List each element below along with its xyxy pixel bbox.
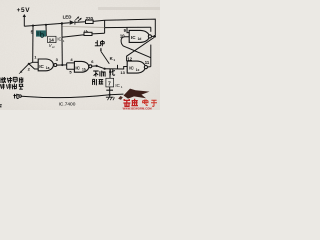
wire pin2 stub diagonal <box>29 64 38 69</box>
wire IC1b input tie <box>67 63 75 69</box>
wire wrap to pin10 and cross couple D2 <box>121 37 151 58</box>
switch K1 contact A <box>100 48 102 51</box>
watermark beetle logo <box>124 89 150 99</box>
svg-text:1b: 1b <box>82 68 86 72</box>
ground lead wire <box>21 94 123 97</box>
ground drop wire <box>109 69 111 78</box>
svg-text:11: 11 <box>145 60 150 65</box>
svg-text:1a: 1a <box>46 66 50 70</box>
wire cross couple D1 (IC1d out to IC1c in12) <box>127 38 154 62</box>
node dot pullup join <box>61 64 63 66</box>
wire pin1 stub <box>33 61 39 63</box>
watermark red text dianzi <box>143 99 157 106</box>
svg-text:LED: LED <box>63 15 72 20</box>
wire IC1a out to IC1b in <box>57 64 67 66</box>
op-amp gate IC1a body <box>38 59 53 71</box>
wire 1k branch horizontal <box>62 35 84 38</box>
node junction dot probe pullup <box>32 25 34 27</box>
ground lead terminal circle <box>19 95 21 97</box>
gate IC1a output bubble <box>54 64 57 67</box>
watermark wing fragment <box>118 96 123 100</box>
node dot switch pole <box>104 68 106 70</box>
svg-text:WWW.BEWORM.COM: WWW.BEWORM.COM <box>123 106 153 110</box>
svg-text:13: 13 <box>120 70 125 75</box>
resistor R 1k body <box>84 32 92 35</box>
node probe junction <box>29 62 33 64</box>
wire pin9 net right drop <box>150 27 152 32</box>
wire pin 9 stub <box>127 28 129 33</box>
wire 1k branch vertical <box>61 24 63 38</box>
wire pole to IC1c pin13 <box>105 67 128 70</box>
wire +5V bus <box>24 23 69 27</box>
svg-text:cc: cc <box>52 45 56 49</box>
LED D1 diode symbol <box>70 20 75 25</box>
svg-text:IC: IC <box>131 35 136 40</box>
svg-text:IC: IC <box>57 37 61 42</box>
pin 7 box <box>106 78 114 87</box>
wire IC1b out <box>92 65 97 67</box>
svg-text:7: 7 <box>108 81 111 87</box>
wire +5V vertical <box>23 16 25 27</box>
wire pin9 net horizontal <box>105 26 151 28</box>
wire IC1d output <box>152 35 156 37</box>
node junction dot Vcc drop <box>45 24 47 26</box>
wire Vcc pin14 drop <box>45 25 47 37</box>
probe tip arrowhead <box>20 71 23 73</box>
switch K1 lever <box>101 51 109 63</box>
ground terminal label (di) bottom left <box>13 94 18 99</box>
ground bar upper <box>106 89 113 91</box>
gate IC1b output bubble <box>89 65 92 68</box>
wire LED to R220 <box>75 21 85 24</box>
svg-text:IC: IC <box>115 83 119 88</box>
svg-text:1d: 1d <box>138 37 142 41</box>
wire R220 to node X <box>93 20 105 21</box>
node dot IC1b out <box>96 65 98 67</box>
gate IC1b body <box>74 61 88 72</box>
stray mark bottom left <box>0 104 2 108</box>
faint bleed-through smudge top right <box>98 7 160 10</box>
probe lead wire <box>22 64 29 71</box>
wire IC1c output <box>148 66 151 68</box>
wire 1k to node X <box>92 32 105 35</box>
watermark red char 2 <box>131 99 138 106</box>
wire IC1a output pullup vertical <box>61 37 63 65</box>
resistor R 220 body <box>86 20 94 23</box>
node dot ground junction <box>109 94 111 96</box>
test probe label (ce shi tan tou) <box>0 83 23 89</box>
svg-text:IC: IC <box>129 66 134 71</box>
gate IC1c body <box>127 61 145 73</box>
svg-text:IC: IC <box>39 64 44 69</box>
ground symbol hatched <box>109 95 111 97</box>
teal annotation patch <box>36 30 46 36</box>
gate IC1d output bubble <box>148 35 151 38</box>
svg-text:1c: 1c <box>136 68 140 72</box>
switch contact B tick <box>117 65 119 69</box>
rising edge label (shang sheng) <box>95 40 105 46</box>
wire to switch pole <box>97 66 105 69</box>
watermark red char 1 <box>123 99 130 106</box>
ground net label (di) <box>109 69 115 75</box>
wire node X vertical <box>104 20 106 33</box>
pin 14 box <box>48 36 56 42</box>
+5V arrow terminal <box>23 14 26 17</box>
wire top right to latch output <box>105 19 156 35</box>
pin label (yin jiao) <box>93 79 104 85</box>
wire below pin7 box <box>109 87 111 95</box>
svg-text:+5V: +5V <box>17 7 31 14</box>
wire probe input vertical <box>32 26 34 63</box>
svg-text:IC: IC <box>75 65 80 70</box>
falling edge label (xia jiang) <box>93 71 105 77</box>
svg-text:14: 14 <box>49 38 55 43</box>
gate IC1c output bubble <box>144 66 147 69</box>
LED emission arrows <box>75 17 81 21</box>
circuit under test label (bei ce dian lu) <box>1 77 23 83</box>
node junction dot 1k drop <box>61 22 63 24</box>
node dot latch output <box>153 35 156 38</box>
wire IC1c feedback vertical <box>150 58 152 67</box>
wire faint mid net <box>62 26 104 29</box>
gate IC1d body <box>129 30 149 42</box>
wire pin9 net lower drop <box>150 45 152 58</box>
svg-text:IC.7400: IC.7400 <box>59 101 76 107</box>
